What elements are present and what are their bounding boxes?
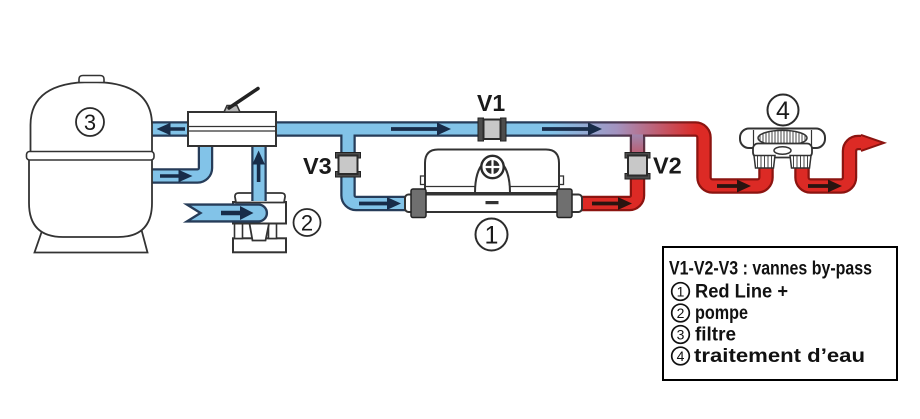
node 4 circle label — [768, 95, 799, 126]
heater 1 thermostat pedestal — [475, 163, 510, 194]
valve V3 body — [339, 156, 358, 175]
arrow: V3 branch to heater (right) — [359, 197, 401, 210]
wire: tank return pipe outline — [150, 121, 192, 137]
water treatment 4 lower body — [753, 144, 812, 158]
arrow: main line after V1 (right) — [542, 123, 602, 136]
arrow: treatment outlet run (right) — [808, 180, 842, 193]
arrow: pump discharge (up) — [252, 151, 265, 183]
pump 2 inlet pipe — [187, 205, 267, 222]
valve V2 bottom flange — [625, 174, 650, 180]
wire: main bypass line fill — [274, 129, 766, 186]
water treatment 4 center oval — [774, 147, 791, 155]
water treatment 4 right collar — [790, 156, 811, 169]
wire: tank suction elbow fill — [150, 144, 206, 176]
wire: heater outlet / V2 branch fill — [576, 126, 638, 204]
svg-text:V2: V2 — [653, 153, 682, 179]
svg-text:1: 1 — [485, 222, 499, 250]
water treatment 4 end seams — [754, 130, 812, 147]
svg-text:V3: V3 — [303, 153, 332, 179]
heater 1 right mounting tab — [558, 176, 564, 185]
legend box — [663, 247, 897, 380]
pipe open end tip — [861, 135, 884, 151]
legend item 1 — [672, 283, 690, 301]
node 3 circle label — [76, 108, 104, 136]
svg-text:4: 4 — [677, 348, 685, 364]
pump 2 body — [233, 202, 286, 224]
pump 2 base plate — [233, 238, 286, 252]
wire: treatment outlet pipe fill — [802, 143, 863, 187]
arrow: heater outlet (right) — [592, 197, 632, 210]
arrow: main line before V1 (right) — [391, 123, 451, 136]
wire: V3 bypass branch fill — [348, 126, 412, 204]
pump 2 right leg — [269, 224, 277, 239]
heater 1 tube — [405, 195, 582, 213]
arrow: flow into tank (left) — [157, 123, 186, 136]
pump 2 lid — [235, 193, 285, 203]
wire: treatment outlet pipe outline — [802, 143, 863, 187]
svg-text:pompe: pompe — [695, 303, 748, 324]
wire: main bypass line outline — [274, 129, 766, 186]
filter tank 3 dome — [31, 82, 153, 153]
svg-text:traitement d’eau: traitement d’eau — [694, 346, 865, 367]
filter tank 3 band — [27, 152, 155, 161]
wire: pump outlet vertical pipe outline — [251, 140, 267, 201]
svg-text:2: 2 — [301, 211, 313, 236]
svg-text:Red Line +: Red Line + — [695, 282, 788, 303]
svg-text:V1: V1 — [477, 90, 505, 116]
heater 1 left mounting tab — [421, 176, 427, 185]
valve V3 top flange — [336, 153, 361, 159]
water treatment 4 top unit — [740, 129, 825, 149]
wire: heater outlet / V2 branch outline — [576, 126, 638, 204]
svg-text:3: 3 — [677, 327, 685, 343]
svg-text:4: 4 — [776, 97, 790, 125]
wire: tank return pipe fill — [150, 124, 192, 135]
heater 1 left flange — [411, 189, 426, 218]
legend item 3 — [672, 326, 690, 344]
valve V1 left flange — [478, 118, 484, 141]
wire: tank suction elbow outline — [150, 144, 206, 176]
wire: pump outlet vertical pipe fill — [254, 140, 265, 201]
valve V1 body — [484, 120, 501, 140]
valve V2 top flange — [625, 153, 650, 159]
valve V3 bottom flange — [336, 172, 361, 178]
heater 1 dial cross — [486, 160, 500, 174]
filter tank 3 top cap — [79, 76, 104, 83]
wire: V3 bypass branch outline — [348, 126, 412, 204]
filter tank 3 lower body — [29, 158, 152, 237]
legend item 4 — [672, 347, 690, 365]
filter tank 3 skirt — [35, 228, 148, 253]
svg-text:V1-V2-V3 : vannes by-pass: V1-V2-V3 : vannes by-pass — [669, 259, 872, 280]
multiport valve body — [188, 112, 276, 146]
arrow: lower red run to treatment (right) — [717, 180, 751, 193]
heater 1 hood rim line — [425, 186, 559, 188]
pump 2 left leg — [235, 224, 243, 239]
node 2 circle label — [294, 209, 321, 236]
svg-text:filtre: filtre — [695, 325, 736, 346]
arrow: flow from tank (right) — [160, 170, 193, 183]
svg-text:3: 3 — [84, 110, 96, 135]
heater 1 right flange — [557, 189, 572, 218]
multiport valve seam lines — [188, 127, 276, 132]
heater 1 dial outer — [481, 156, 503, 178]
valve V2 body — [628, 156, 647, 176]
arrow: pump suction (right) — [221, 206, 254, 220]
heater 1 hood — [425, 150, 559, 194]
legend item 2 — [672, 304, 690, 322]
water treatment 4 left collar — [754, 156, 775, 169]
multiport valve handle lever — [229, 89, 258, 109]
pump 2 motor mount bucket — [250, 224, 270, 241]
node 1 circle label — [476, 219, 508, 251]
multiport valve handle base — [224, 106, 240, 113]
heater 1 dash mark — [486, 201, 499, 204]
water treatment 4 lens — [758, 130, 807, 145]
heater 1 dial knob — [486, 160, 500, 174]
svg-text:2: 2 — [677, 305, 685, 321]
svg-text:1: 1 — [677, 284, 685, 300]
valve V1 right flange — [501, 118, 507, 141]
